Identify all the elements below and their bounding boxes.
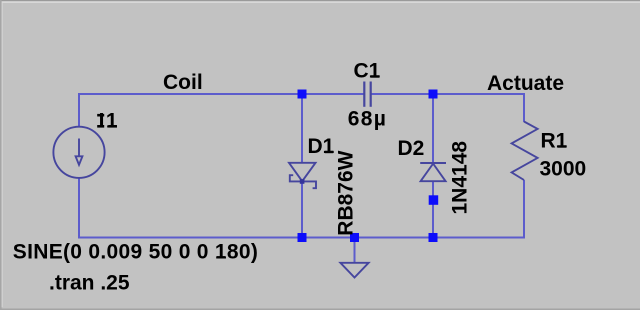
- wire: bottom rail: [78, 237, 524, 239]
- diode D1 triangle: [289, 163, 316, 181]
- wire: ground stub: [354, 238, 356, 264]
- window bottom border: [0, 309, 640, 310]
- svg-text:D2: D2: [398, 137, 425, 160]
- node: bottom rail / ground: [350, 233, 359, 242]
- wire: right vertical above R1: [523, 93, 525, 122]
- capacitor C1 right plate: [370, 82, 372, 107]
- node: top rail / D1: [298, 90, 307, 99]
- ground symbol: [340, 263, 368, 278]
- capacitor C1 left plate: [363, 82, 365, 107]
- svg-text:3000: 3000: [540, 158, 587, 181]
- resistor R1 zigzag: [512, 122, 538, 181]
- wire: left vertical above I1: [78, 93, 80, 128]
- svg-text:R1: R1: [541, 130, 568, 153]
- svg-text:Actuate: Actuate: [487, 72, 564, 95]
- current source I1 circle: [53, 127, 104, 178]
- wire: top rail right segment (Actuate net): [371, 93, 525, 95]
- svg-text:1N4148: 1N4148: [449, 141, 472, 215]
- diode D2 triangle: [421, 164, 446, 182]
- svg-text:I1: I1: [99, 110, 120, 133]
- node: top rail / D2: [429, 90, 438, 99]
- svg-text:.tran .25: .tran .25: [49, 272, 130, 295]
- svg-text:68µ: 68µ: [348, 108, 387, 131]
- junction blob at D1 apex: [300, 179, 305, 184]
- wire: D2 branch lower: [432, 182, 434, 238]
- wire: D1 branch upper: [301, 94, 303, 164]
- wire: left vertical below I1: [78, 178, 80, 239]
- window left border: [0, 0, 2, 310]
- wire: D2 branch upper: [432, 94, 434, 164]
- node: bottom rail / D2: [429, 233, 438, 242]
- current source I1 arrow shaft: [78, 139, 80, 157]
- svg-text:D1: D1: [308, 135, 335, 158]
- svg-text:Coil: Coil: [163, 71, 203, 94]
- diode D2 cathode bar: [420, 162, 446, 164]
- wire: right vertical below R1: [523, 180, 525, 239]
- svg-text:C1: C1: [354, 60, 381, 83]
- wire: top rail left segment (Coil net): [78, 93, 364, 95]
- label I1 serif bars: [97, 114, 104, 117]
- node: bottom rail / D1: [298, 233, 307, 242]
- node: D2 lower mid-branch: [429, 195, 439, 205]
- svg-text:SINE(0 0.009 50 0 0 180): SINE(0 0.009 50 0 0 180): [13, 240, 258, 263]
- wire: D1 branch lower: [301, 182, 303, 238]
- window top border: [0, 0, 640, 1]
- current source I1 arrowhead: [76, 156, 83, 165]
- svg-text:RB876W: RB876W: [335, 150, 358, 235]
- diode D1 schottky cathode bar: [290, 175, 316, 188]
